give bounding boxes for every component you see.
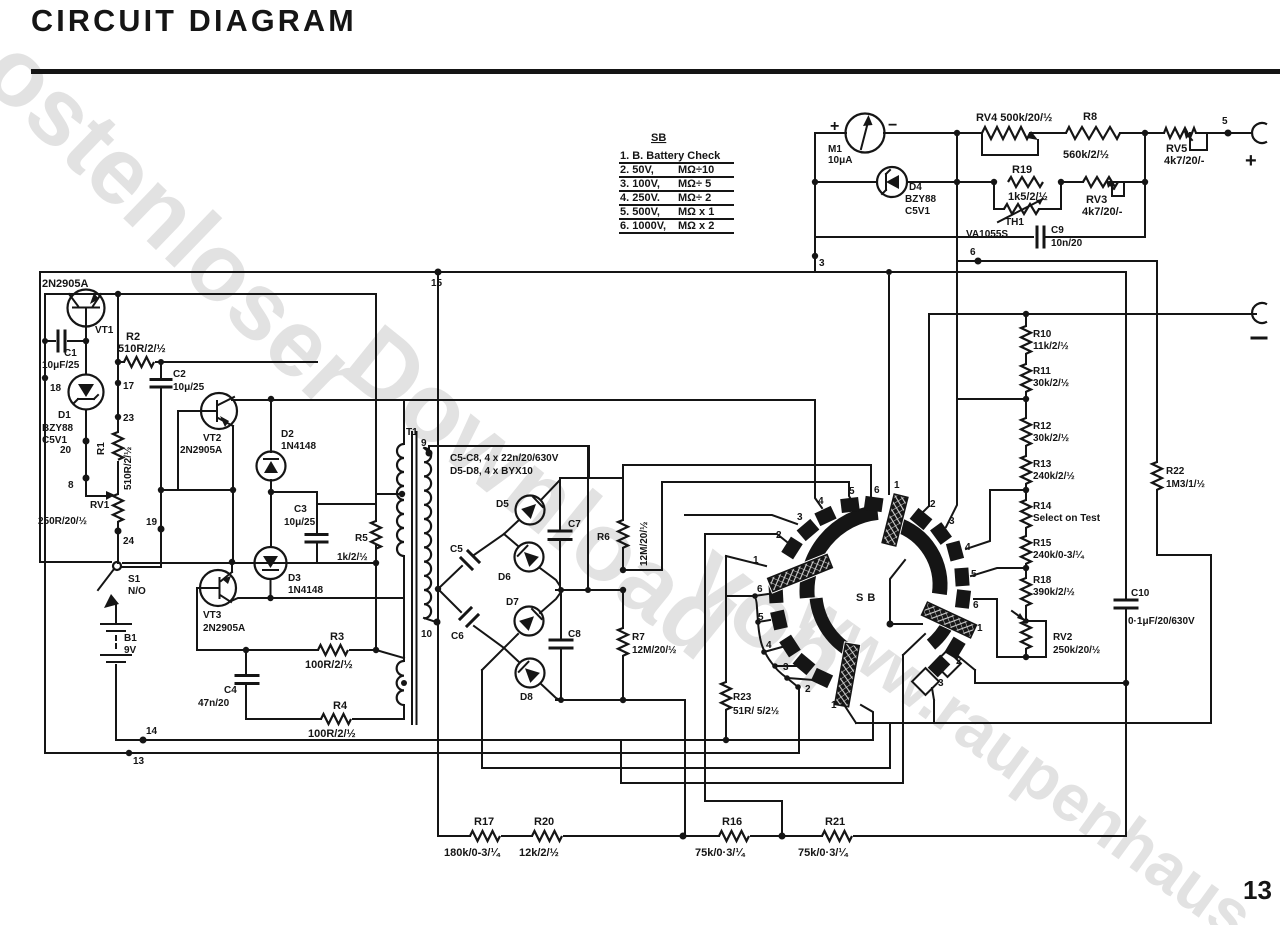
svg-text:C4: C4 <box>224 685 237 696</box>
wire C group shorting arc <box>726 596 798 687</box>
svg-text:19: 19 <box>146 517 158 528</box>
svg-text:1N4148: 1N4148 <box>288 585 323 596</box>
svg-text:RV3: RV3 <box>1086 194 1107 206</box>
svg-text:390k/2/½: 390k/2/½ <box>1033 587 1075 598</box>
svg-text:510R/2/½: 510R/2/½ <box>118 343 166 355</box>
svg-text:6: 6 <box>973 600 979 611</box>
wire RV1 wiper from node 8 <box>86 478 108 496</box>
wire rail y=403 to A4 <box>404 400 822 508</box>
svg-text:R12: R12 <box>1033 421 1052 432</box>
svg-text:−: − <box>888 117 897 134</box>
T1 core <box>412 432 417 724</box>
wire collector rail y=294 <box>45 293 376 295</box>
stub C4 <box>764 647 782 652</box>
contact pad A4 <box>814 506 836 526</box>
wire VT3 collector rail y=598 <box>231 598 404 601</box>
svg-text:R1: R1 <box>96 442 107 455</box>
wire R22 column x=1157 <box>1157 261 1211 723</box>
svg-text:VT1: VT1 <box>95 325 114 336</box>
resistor R23 <box>721 682 731 710</box>
contact pad B4 <box>946 540 964 561</box>
potentiometer RV3 <box>1083 177 1118 187</box>
node 10 <box>424 618 436 622</box>
wire B2 feed <box>923 506 929 512</box>
wire D2 bottom to C3/R5 <box>271 492 376 563</box>
svg-text:1: 1 <box>977 623 983 634</box>
svg-text:B1: B1 <box>124 633 137 644</box>
wire C7 line to R6 column <box>560 465 623 478</box>
zener diode D1 <box>85 341 87 496</box>
resistor R1 <box>113 432 123 460</box>
svg-text:R11: R11 <box>1033 366 1051 377</box>
resistor R20 <box>532 831 562 841</box>
contact pad C2 <box>811 668 833 688</box>
svg-text:2N2905A: 2N2905A <box>42 278 89 290</box>
wire wiper D tail riser x=903 <box>903 634 925 783</box>
resistor R12 <box>1021 418 1031 446</box>
svg-text:3: 3 <box>938 678 944 689</box>
resistor R22 <box>1152 462 1162 490</box>
capacitor C8 <box>560 591 562 700</box>
svg-text:100R/2/½: 100R/2/½ <box>308 728 356 740</box>
svg-text:MΩ÷ 2: MΩ÷ 2 <box>678 192 711 204</box>
svg-text:9V: 9V <box>124 645 137 656</box>
wire node15 vertical x=438 full drop <box>437 272 439 836</box>
svg-text:2: 2 <box>930 499 936 510</box>
svg-text:8: 8 <box>68 480 74 491</box>
svg-text:R20: R20 <box>534 816 554 828</box>
node 17 <box>115 380 121 386</box>
wire B3 feed <box>946 399 957 527</box>
resistor R2 row <box>118 361 317 363</box>
svg-text:R13: R13 <box>1033 459 1052 470</box>
node 19 <box>158 526 165 533</box>
wire T1 primary top lead <box>403 400 405 444</box>
resistor R7 <box>622 590 624 700</box>
rotor arc lower left <box>816 598 853 653</box>
svg-text:D2: D2 <box>281 429 294 440</box>
wire C9 row y=237 <box>815 236 1145 238</box>
contact pad A3 <box>797 519 820 541</box>
svg-text:30k/2/½: 30k/2/½ <box>1033 433 1069 444</box>
svg-text:R5: R5 <box>355 533 368 544</box>
svg-text:3: 3 <box>783 662 789 673</box>
svg-text:RV2: RV2 <box>1053 632 1073 643</box>
wire line D y=783 <box>621 740 903 783</box>
svg-text:R22: R22 <box>1166 466 1185 477</box>
svg-text:R15: R15 <box>1033 538 1052 549</box>
resistor R21 <box>822 831 852 841</box>
wire bottom rail y=700 <box>556 699 685 701</box>
svg-text:R23: R23 <box>733 692 752 703</box>
wire wiper C tail to bus y723 <box>841 700 1211 723</box>
svg-text:MΩ x 1: MΩ x 1 <box>678 206 714 218</box>
zener diode D4 <box>877 167 907 197</box>
node 8 <box>83 475 90 482</box>
legend SB table <box>620 132 733 233</box>
svg-text:TH1: TH1 <box>1005 217 1024 228</box>
svg-text:10: 10 <box>421 629 433 640</box>
contact pad B2 <box>910 508 933 530</box>
wire D4 row y=182 <box>815 181 1145 183</box>
svg-text:D5-D8, 4 x BYX10: D5-D8, 4 x BYX10 <box>450 466 533 477</box>
svg-text:SB: SB <box>856 592 879 604</box>
svg-text:12k/2/½: 12k/2/½ <box>519 847 559 859</box>
svg-text:23: 23 <box>123 413 135 424</box>
T1 secondary winding <box>424 448 431 618</box>
contact pad C3 <box>793 653 816 675</box>
svg-text:5. 500V,: 5. 500V, <box>620 206 660 218</box>
wire B4 feed from R13/R14 junction <box>966 490 1026 549</box>
svg-text:VT2: VT2 <box>203 433 222 444</box>
node 9 <box>424 446 429 452</box>
svg-text:C10: C10 <box>1131 588 1150 599</box>
svg-text:MΩ x 2: MΩ x 2 <box>678 220 714 232</box>
capacitor C2 <box>160 362 162 567</box>
svg-text:Select on Test: Select on Test <box>1033 513 1101 524</box>
svg-text:3: 3 <box>797 512 803 523</box>
svg-text:11k/2/½: 11k/2/½ <box>1033 341 1069 352</box>
potentiometer RV2 <box>1021 621 1031 649</box>
svg-text:5: 5 <box>1222 116 1228 127</box>
svg-text:3: 3 <box>819 258 825 269</box>
resistor R13 <box>1021 456 1031 484</box>
wire bottom resistor row y=836 <box>438 835 1126 837</box>
resistor R14 <box>1021 500 1031 528</box>
svg-text:D1: D1 <box>58 410 71 421</box>
wire mid rail y=590 <box>556 589 623 591</box>
svg-text:4k7/20/-: 4k7/20/- <box>1164 155 1205 167</box>
svg-text:N/O: N/O <box>128 586 146 597</box>
svg-text:100R/2/½: 100R/2/½ <box>305 659 353 671</box>
svg-text:10μA: 10μA <box>828 155 852 166</box>
node 15 <box>435 269 442 276</box>
diode D3 <box>255 547 287 579</box>
node 14 <box>140 737 147 744</box>
terminal jack minus <box>1252 303 1267 323</box>
svg-text:560k/2/½: 560k/2/½ <box>1063 149 1109 161</box>
capacitor C7 <box>559 478 561 590</box>
svg-text:R8: R8 <box>1083 111 1097 123</box>
wire VT2 collector line y=490 <box>161 489 233 491</box>
junction dots M1 row <box>954 130 960 136</box>
resistor R11 <box>1021 364 1031 392</box>
wire ladder right top drop x=588 <box>587 446 589 590</box>
stub C2 <box>787 678 814 680</box>
contact pad C4 <box>779 635 801 658</box>
wire vertical from M1 plus to node 3 and bus <box>814 133 816 272</box>
wire M1 row y=133 <box>815 132 1252 134</box>
svg-text:RV5: RV5 <box>1166 143 1187 155</box>
wire A2 feed y=534 <box>705 534 787 542</box>
svg-text:C8: C8 <box>568 629 581 640</box>
svg-text:1. B. Battery Check: 1. B. Battery Check <box>620 150 721 162</box>
node 23 <box>115 414 121 420</box>
rotor arc upper right segment <box>896 524 940 594</box>
svg-text:1: 1 <box>894 480 900 491</box>
wiper C1 hatched <box>835 643 860 706</box>
contact pad A2 <box>781 537 802 560</box>
svg-text:75k/0·3/¼: 75k/0·3/¼ <box>798 847 848 859</box>
svg-text:SB: SB <box>651 132 666 144</box>
svg-text:250R/20/½: 250R/20/½ <box>38 516 87 527</box>
rotor arc lower right <box>931 615 952 645</box>
capacitor C5 diagonal <box>438 534 504 589</box>
wire T1 primary mid section <box>403 556 405 661</box>
resistor R19 <box>1008 177 1043 187</box>
terminal jack plus <box>1252 123 1267 143</box>
center junction of SB <box>887 621 894 628</box>
node junction bus x889 <box>886 269 892 275</box>
svg-text:250k/20/½: 250k/20/½ <box>1053 645 1100 656</box>
svg-text:75k/0·3/¼: 75k/0·3/¼ <box>695 847 745 859</box>
wiper B1 hatched <box>882 494 908 546</box>
svg-text:R7: R7 <box>632 632 645 643</box>
node 6 <box>975 258 982 265</box>
contact pad C5 <box>770 610 788 631</box>
svg-text:R17: R17 <box>474 816 494 828</box>
capacitor C1 <box>45 340 86 342</box>
wire inner left vertical x45 <box>44 294 46 753</box>
wire node14 rail y=740 <box>116 738 873 740</box>
svg-text:12M/20/½: 12M/20/½ <box>632 645 676 656</box>
wire R1 column x=118 <box>117 294 119 563</box>
svg-text:14: 14 <box>146 726 158 737</box>
thermistor TH1 loop <box>994 182 1061 209</box>
svg-text:VT3: VT3 <box>203 610 222 621</box>
svg-text:0·1μF/20/630V: 0·1μF/20/630V <box>1128 616 1195 627</box>
meter M1 <box>846 114 885 153</box>
wiper D1 hatched <box>922 602 977 638</box>
resistor R3 <box>318 645 348 655</box>
diode D2 <box>270 399 272 545</box>
wire VT3 base rail y=650 with C4/R3 <box>197 649 376 651</box>
svg-text:15: 15 <box>431 278 443 289</box>
title rule <box>31 69 1280 74</box>
svg-text:BZY88: BZY88 <box>905 194 937 205</box>
svg-text:1N4148: 1N4148 <box>281 441 316 452</box>
svg-text:RV4 500k/20/½: RV4 500k/20/½ <box>976 112 1052 124</box>
svg-text:24: 24 <box>123 536 135 547</box>
svg-text:D3: D3 <box>288 573 301 584</box>
svg-text:R4: R4 <box>333 700 348 712</box>
svg-text:+: + <box>830 118 839 135</box>
transistor VT2 <box>201 393 237 429</box>
stub C6 <box>754 594 768 596</box>
svg-text:6: 6 <box>874 485 880 496</box>
svg-text:C9: C9 <box>1051 225 1064 236</box>
svg-text:CIRCUIT DIAGRAM: CIRCUIT DIAGRAM <box>31 4 357 38</box>
node 24 <box>115 528 122 535</box>
svg-text:47n/20: 47n/20 <box>198 698 230 709</box>
svg-text:R16: R16 <box>722 816 742 828</box>
wire C10 column x=1126 <box>1125 272 1127 836</box>
svg-text:R19: R19 <box>1012 164 1032 176</box>
svg-text:9: 9 <box>421 438 427 449</box>
svg-text:D6: D6 <box>498 572 511 583</box>
diode D5 <box>504 478 560 534</box>
svg-text:C5V1: C5V1 <box>905 206 930 217</box>
svg-text:R6: R6 <box>597 532 610 543</box>
wire R6top line to A6 <box>623 465 871 497</box>
wire line B riser to C2 pad <box>798 687 800 753</box>
svg-text:10μF/25: 10μF/25 <box>42 360 80 371</box>
svg-text:20: 20 <box>60 445 72 456</box>
junction R11/R12 <box>1023 396 1029 402</box>
node 13 <box>126 750 132 756</box>
diamond outline at D2 <box>934 650 961 677</box>
stub C5 <box>758 620 770 622</box>
resistor R17 <box>470 831 500 841</box>
svg-text:R3: R3 <box>330 631 344 643</box>
wire D3 pad drop to bus723 <box>932 688 934 723</box>
resistor R8 <box>1066 127 1120 139</box>
svg-text:12M/20/½: 12M/20/½ <box>639 522 650 566</box>
capacitor C4 <box>245 650 247 719</box>
wire x376 vertical from rail to R3 <box>376 294 404 658</box>
svg-text:10n/20: 10n/20 <box>1051 238 1083 249</box>
wire B5 feed from R15/R18 junction <box>971 568 1024 576</box>
resistor R4 row y=719 <box>246 705 404 719</box>
rotor arc upper main segment <box>807 512 878 598</box>
svg-text:C3: C3 <box>294 504 307 515</box>
svg-text:MΩ÷10: MΩ÷10 <box>678 164 714 176</box>
resistor R15 <box>1021 536 1031 564</box>
svg-text:510R/2/½: 510R/2/½ <box>123 447 134 490</box>
svg-text:C1: C1 <box>64 348 77 359</box>
capacitor C9 <box>1037 227 1044 247</box>
svg-text:6: 6 <box>970 247 976 258</box>
svg-text:R14: R14 <box>1033 501 1052 512</box>
contact pad A6 <box>864 496 884 512</box>
wire left outer vertical <box>39 272 41 562</box>
svg-text:D7: D7 <box>506 597 519 608</box>
wire R6 bottom stub to x662 <box>623 482 662 570</box>
wire R7 bottom rail to x685 <box>684 702 686 836</box>
wire chain top <box>1025 314 1027 326</box>
svg-text:30k/2/½: 30k/2/½ <box>1033 378 1069 389</box>
wire minus bus y=314 <box>929 314 1256 506</box>
resistor R5 (in x=376 column) <box>371 521 381 549</box>
wire line A riser to wiper C <box>861 705 873 740</box>
node 20 <box>83 438 90 445</box>
resistor R16 <box>719 831 749 841</box>
svg-text:13: 13 <box>1243 875 1272 905</box>
diode D6 <box>504 534 560 590</box>
wire A3 feed y=515 <box>685 515 797 524</box>
battery B1 <box>115 604 117 738</box>
junction dots R19 <box>991 179 997 185</box>
svg-text:D8: D8 <box>520 692 533 703</box>
svg-text:180k/0-3/¼: 180k/0-3/¼ <box>444 847 500 859</box>
diamond outline at D3 <box>912 668 939 695</box>
svg-text:240k/2/½: 240k/2/½ <box>1033 471 1075 482</box>
resistor R6 <box>622 465 624 570</box>
capacitor C6 diagonal <box>438 589 504 648</box>
wire x662 line to A5 <box>662 482 852 501</box>
node 18 <box>42 375 48 381</box>
svg-text:2. 50V,: 2. 50V, <box>620 164 654 176</box>
svg-text:1: 1 <box>831 700 837 711</box>
T1 feedback winding lower <box>397 661 404 705</box>
svg-text:C2: C2 <box>173 369 186 380</box>
potentiometer RV5 <box>1164 128 1196 138</box>
wire ladder top rail y=446 <box>429 446 589 478</box>
svg-text:4k7/20/-: 4k7/20/- <box>1082 206 1123 218</box>
wire bottom rail 13 y=753 <box>45 752 799 754</box>
contact pad D2 <box>944 637 965 660</box>
wire emitter rail y=399 <box>232 399 404 401</box>
wire x482 riser to ladder <box>482 648 504 768</box>
svg-text:C6: C6 <box>451 631 464 642</box>
svg-text:17: 17 <box>123 381 135 392</box>
wire S1 feed rail y=562 <box>40 562 376 563</box>
svg-text:6: 6 <box>757 584 763 595</box>
wire top bus y=272 node15 <box>40 271 1126 273</box>
junction R15/R18 <box>1023 565 1029 571</box>
svg-text:C5-C8, 4 x 22n/20/630V: C5-C8, 4 x 22n/20/630V <box>450 453 559 464</box>
svg-text:4. 250V.: 4. 250V. <box>620 192 660 204</box>
svg-text:VA1055S: VA1055S <box>966 229 1008 240</box>
svg-text:13: 13 <box>133 756 145 767</box>
wire line C y=768 <box>482 723 890 768</box>
svg-text:18: 18 <box>50 383 62 394</box>
transistor VT3 <box>200 570 236 606</box>
wire right vertical x=1145 <box>1144 133 1146 237</box>
wire RV1 column to S1 <box>117 531 119 562</box>
svg-text:D5: D5 <box>496 499 509 510</box>
wire bus to wiper B1 <box>888 276 890 494</box>
svg-text:2N2905A: 2N2905A <box>203 623 245 634</box>
diode D7 <box>504 592 561 648</box>
svg-text:R2: R2 <box>126 331 140 343</box>
svg-text:C7: C7 <box>568 519 581 530</box>
svg-text:240k/0-3/¼: 240k/0-3/¼ <box>1033 550 1084 561</box>
node 3 <box>812 253 818 259</box>
contact pad A5 <box>840 497 860 513</box>
diode D8 <box>504 648 560 700</box>
svg-text:RV1: RV1 <box>90 500 110 511</box>
wire B6 feed to RV2 bottom <box>974 599 1023 657</box>
junction R13/R14 <box>1023 487 1029 493</box>
contact pad B6 <box>955 589 971 609</box>
wire 19 column jog to S1 <box>121 529 161 567</box>
contact pad B5 <box>954 568 969 587</box>
resistor R18 <box>1021 578 1031 606</box>
svg-text:BZY88: BZY88 <box>42 423 74 434</box>
svg-text:MΩ÷ 5: MΩ÷ 5 <box>678 178 711 190</box>
wire wiper A1 to R23 <box>726 556 766 682</box>
contact pad C6 <box>769 585 784 604</box>
wire D2 pad to C10 column <box>958 656 1126 683</box>
switch S1 <box>113 562 121 570</box>
svg-text:+: + <box>1245 150 1257 172</box>
svg-text:R21: R21 <box>825 816 845 828</box>
stub C3 <box>775 665 796 667</box>
potentiometer RV4 <box>982 127 1030 139</box>
svg-text:10μ/25: 10μ/25 <box>284 517 316 528</box>
T1 primary winding upper <box>397 444 404 556</box>
wire node6 run <box>957 133 1157 399</box>
capacitor C3 <box>306 535 327 543</box>
svg-text:1M3/1/½: 1M3/1/½ <box>1166 479 1205 490</box>
svg-text:3. 100V,: 3. 100V, <box>620 178 660 190</box>
ladder apex P0 <box>435 586 441 592</box>
wire x705 drop <box>705 534 782 836</box>
svg-text:M1: M1 <box>828 144 842 155</box>
svg-text:R18: R18 <box>1033 575 1052 586</box>
contact pad D3 <box>928 655 951 678</box>
